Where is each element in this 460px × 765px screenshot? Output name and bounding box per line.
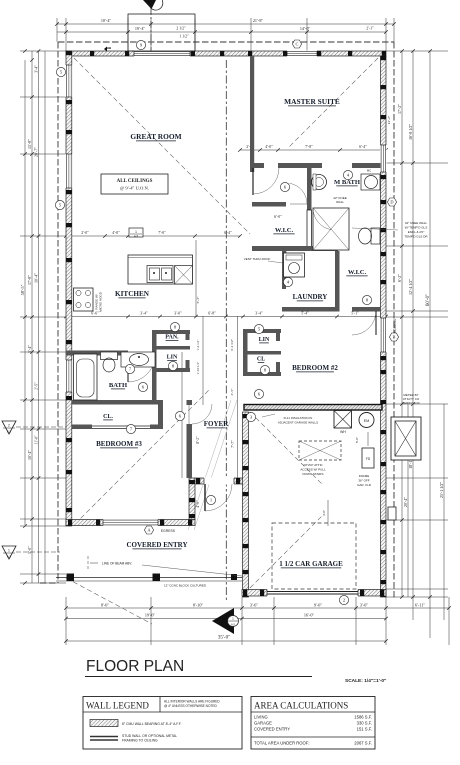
EM circle xyxy=(359,413,374,428)
svg-text:3′-1 1/2″: 3′-1 1/2″ xyxy=(230,338,234,351)
svg-text:WALL LEGEND: WALL LEGEND xyxy=(86,701,149,711)
tag 6 foyer xyxy=(175,411,184,420)
kitchen island counter xyxy=(128,255,193,284)
bed2 door swing xyxy=(352,311,376,335)
svg-text:17′-2″: 17′-2″ xyxy=(397,104,402,114)
svg-text:FOYER: FOYER xyxy=(204,420,229,428)
svg-text:6′-8″: 6′-8″ xyxy=(208,312,216,316)
exterior wall garage left xyxy=(243,412,249,597)
svg-text:3′-4″: 3′-4″ xyxy=(35,65,39,73)
svg-text:42″ KNEE WALL: 42″ KNEE WALL xyxy=(405,221,428,225)
bath toilet xyxy=(101,352,118,360)
svg-text:TOTAL AREA UNDER ROOF:: TOTAL AREA UNDER ROOF: xyxy=(254,741,310,746)
svg-text:R-11 INSULATION IN: R-11 INSULATION IN xyxy=(284,416,313,420)
interior dim col bed3 xyxy=(181,352,183,478)
tag 9 top wall xyxy=(136,40,145,49)
svg-text:ACCESS W/ PULL: ACCESS W/ PULL xyxy=(300,468,326,472)
svg-text:2067 S.F.: 2067 S.F. xyxy=(354,741,372,746)
wall pantry left xyxy=(152,330,157,372)
right extension lines xyxy=(386,50,448,52)
svg-text:VERIFY LOC: VERIFY LOC xyxy=(402,401,421,405)
svg-text:FLOOR PLAN: FLOOR PLAN xyxy=(86,658,184,675)
tag 5 left wall kitchen xyxy=(55,200,64,209)
tag 6 master door xyxy=(280,182,289,191)
svg-text:20′-7″: 20′-7″ xyxy=(34,147,39,157)
svg-text:MC: MC xyxy=(367,169,371,173)
tag hex D right xyxy=(387,198,396,206)
range xyxy=(74,288,94,311)
svg-text:4′-0″: 4′-0″ xyxy=(322,510,326,516)
svg-text:9′-0″: 9′-0″ xyxy=(314,603,322,608)
dimension row top 2 xyxy=(57,31,386,33)
svg-text:3′-5″: 3′-5″ xyxy=(230,388,234,395)
knee wall mbath xyxy=(307,210,312,250)
svg-text:1′-4 1/2″: 1′-4 1/2″ xyxy=(196,339,200,351)
svg-text:A.3: A.3 xyxy=(7,430,12,434)
svg-text:8′-0″: 8′-0″ xyxy=(101,603,109,608)
section triangle 1/A3 xyxy=(2,546,16,559)
mbath shower xyxy=(313,208,349,250)
tag hex B egress bed2 xyxy=(389,333,398,341)
laundry washer dryer xyxy=(284,253,305,277)
kitchen sink double xyxy=(147,266,173,283)
laundry door swing xyxy=(286,251,305,270)
svg-text:21′-8″: 21′-8″ xyxy=(253,18,264,23)
svg-text:5′-1″: 5′-1″ xyxy=(351,312,359,316)
svg-text:12′-2″: 12′-2″ xyxy=(387,115,391,124)
interior dim row kitchen top xyxy=(66,235,240,237)
wall bath top xyxy=(66,351,128,356)
svg-text:1 1/2 CAR GARAGE: 1 1/2 CAR GARAGE xyxy=(279,560,343,568)
ceiling note box xyxy=(101,174,168,194)
svg-text:330 S.F.: 330 S.F. xyxy=(357,721,372,726)
bath vanity xyxy=(121,352,155,367)
cl sliding doors xyxy=(92,425,150,427)
svg-text:5′-3″: 5′-3″ xyxy=(196,296,200,303)
roof valley bedroom3-foyer xyxy=(75,389,210,524)
svg-text:6′-4″: 6′-4″ xyxy=(224,231,232,235)
wall laundry bottom xyxy=(282,307,339,312)
svg-text:BEDROOM #2: BEDROOM #2 xyxy=(292,364,338,372)
wall legend header divider xyxy=(159,697,161,713)
wall cl bottom left xyxy=(72,425,92,430)
bottom dim row 2 xyxy=(66,618,386,620)
svg-text:GREAT ROOM: GREAT ROOM xyxy=(130,132,181,141)
tag 5 left wall xyxy=(56,67,65,76)
tag 4 laundry xyxy=(283,277,292,286)
title underline xyxy=(85,676,312,678)
covered entry slab xyxy=(56,577,242,579)
roof valley garage upper xyxy=(250,412,322,484)
svg-text:1586 S.F.: 1586 S.F. xyxy=(354,715,372,720)
svg-text:LIN: LIN xyxy=(167,355,178,361)
wall bed2 closet left xyxy=(243,329,248,376)
svg-text:19′-4″: 19′-4″ xyxy=(135,26,146,31)
legend swatch cmu xyxy=(90,720,118,727)
FD box xyxy=(362,448,374,468)
wall laundry right / wic2 left xyxy=(335,251,340,312)
svg-text:ENCL & 2′0″: ENCL & 2′0″ xyxy=(408,230,425,234)
garage right bump xyxy=(388,507,396,520)
svg-text:10′-4″: 10′-4″ xyxy=(101,18,112,23)
north arrow xyxy=(143,0,156,9)
entry post right xyxy=(231,574,237,580)
svg-text:20″x54″ ATTIC: 20″x54″ ATTIC xyxy=(303,463,323,467)
svg-text:5′-4″: 5′-4″ xyxy=(301,312,309,316)
svg-text:6′-2″: 6′-2″ xyxy=(397,274,402,282)
svg-text:LIN: LIN xyxy=(259,337,270,343)
left dim col line B xyxy=(31,51,33,583)
svg-text:20′-4″: 20′-4″ xyxy=(403,497,408,507)
svg-text:2′-1″: 2′-1″ xyxy=(366,27,374,31)
garage center dim xyxy=(327,500,329,526)
building centerline dash-dot xyxy=(225,60,227,600)
svg-text:12′-4 1/2″: 12′-4 1/2″ xyxy=(408,279,413,295)
svg-text:5′-4″: 5′-4″ xyxy=(28,345,32,353)
wall lin bottom xyxy=(152,368,190,372)
svg-text:6′-0″: 6′-0″ xyxy=(274,215,282,219)
wall bedroom3 right xyxy=(187,424,193,478)
svg-text:CL.: CL. xyxy=(103,414,113,420)
svg-text:10′-4″: 10′-4″ xyxy=(34,273,39,283)
wall wic1 bottom xyxy=(252,246,338,251)
svg-text:KITCHEN: KITCHEN xyxy=(115,290,150,298)
dishwasher xyxy=(175,266,193,285)
svg-text:@ 4″ UNLESS OTHERWISE NOTED: @ 4″ UNLESS OTHERWISE NOTED xyxy=(164,704,218,708)
wall wic2 bottom / bed2 top xyxy=(352,307,381,312)
tag 8 lin hall xyxy=(168,361,177,370)
interior dim row mid xyxy=(66,316,386,318)
wall master suite bottom xyxy=(250,163,264,168)
svg-text:14′-0″: 14′-0″ xyxy=(300,26,311,31)
svg-text:15′-8″: 15′-8″ xyxy=(27,139,32,149)
wall pantry mid xyxy=(152,346,190,350)
svg-text:ALL CEILINGS: ALL CEILINGS xyxy=(117,179,153,184)
wall mbath vertical xyxy=(307,168,312,210)
closet stubs bed2 xyxy=(276,333,280,341)
interior dim col foyer xyxy=(237,316,239,478)
tag 7 bath vanity xyxy=(125,364,134,373)
roof valley master suite xyxy=(288,58,378,148)
mbath sink left xyxy=(312,175,327,190)
section arrow bottom xyxy=(212,608,234,634)
svg-text:DOWN STAIRS: DOWN STAIRS xyxy=(303,472,324,476)
svg-text:A-5: A-5 xyxy=(134,234,139,238)
legend swatch stud xyxy=(90,736,118,738)
entry post mid xyxy=(153,574,161,582)
bottom dim row 3 xyxy=(66,640,386,642)
tag 1 entry xyxy=(206,495,215,504)
roof valley foyer lines xyxy=(188,400,231,530)
svg-text:FRAMING TO CEILING: FRAMING TO CEILING xyxy=(122,739,158,743)
right dim col line B xyxy=(412,51,414,620)
svg-text:12″ CONC BLOCK CULTURED: 12″ CONC BLOCK CULTURED xyxy=(164,584,207,588)
svg-text:3′-0″: 3′-0″ xyxy=(360,603,368,608)
right dim col line C xyxy=(429,51,431,638)
svg-text:A.5: A.5 xyxy=(231,623,235,627)
exterior wall entry front xyxy=(195,478,248,484)
wall cl jog xyxy=(158,400,163,429)
tag 6 bed2 xyxy=(254,389,263,398)
pantry stubs xyxy=(186,334,190,340)
svg-text:LAUNDRY: LAUNDRY xyxy=(293,293,328,301)
attic access xyxy=(299,441,341,460)
svg-text:FD: FD xyxy=(366,457,371,461)
svg-text:7′-7″: 7′-7″ xyxy=(231,440,235,448)
svg-text:7′-0″: 7′-0″ xyxy=(158,231,166,235)
svg-text:BEDROOM #3: BEDROOM #3 xyxy=(96,440,142,448)
roof valley covered entry xyxy=(66,578,152,624)
wall bed2 closet top xyxy=(243,329,281,333)
svg-text:16′-0″: 16′-0″ xyxy=(304,613,315,618)
svg-text:16′-8 1/2″: 16′-8 1/2″ xyxy=(408,124,413,140)
svg-text:W.I.C.: W.I.C. xyxy=(275,227,294,234)
svg-text:M BATH: M BATH xyxy=(334,179,361,186)
exterior wall bedroom3 front xyxy=(66,520,195,526)
svg-text:WALL: WALL xyxy=(336,200,344,204)
svg-text:7′-8″: 7′-8″ xyxy=(305,145,313,149)
exterior wall right xyxy=(381,56,387,597)
svg-text:PAN.: PAN. xyxy=(165,335,179,341)
svg-text:LIVING: LIVING xyxy=(254,715,268,720)
wall laundry left xyxy=(282,251,286,289)
wall bath right xyxy=(152,351,157,405)
garage top wall xyxy=(244,405,382,411)
svg-text:CL: CL xyxy=(257,357,265,363)
svg-text:8′-10″: 8′-10″ xyxy=(193,603,204,608)
svg-text:6′-4″: 6′-4″ xyxy=(359,145,367,149)
svg-text:2′-0″: 2′-0″ xyxy=(81,231,89,235)
bedroom3 door stub and swing xyxy=(187,400,193,405)
roof overhang dashed bottom-left xyxy=(40,582,58,584)
svg-text:3′-4″: 3′-4″ xyxy=(140,312,148,316)
centerline dashed top porch xyxy=(150,8,152,56)
svg-text:W.I.C.: W.I.C. xyxy=(348,269,367,276)
svg-text:3′-0″: 3′-0″ xyxy=(174,312,182,316)
svg-text:D: D xyxy=(390,200,393,205)
svg-text:5′-0″: 5′-0″ xyxy=(28,546,32,554)
exterior wall garage bottom xyxy=(242,590,386,597)
wall bath bottom xyxy=(72,400,163,405)
exterior wall top xyxy=(66,51,386,56)
shower door arc xyxy=(313,208,331,230)
tag hex A egress bed3 xyxy=(144,526,153,534)
tag 7 cl xyxy=(126,424,135,433)
wall great room / master suite xyxy=(250,56,254,172)
svg-text:1: 1 xyxy=(8,549,10,553)
svg-text:4′-0″: 4′-0″ xyxy=(265,145,273,149)
svg-text:MICRO HOOD: MICRO HOOD xyxy=(99,291,103,312)
roof valley great room xyxy=(74,58,250,234)
roof valley garage lower xyxy=(250,516,322,588)
tag 6 bath door xyxy=(138,382,147,391)
svg-text:17′-8″: 17′-8″ xyxy=(27,275,32,285)
bottom dim row 1 xyxy=(66,607,449,609)
tag 3 garage wall xyxy=(246,412,255,421)
left dim col line C xyxy=(38,51,40,583)
svg-text:AREA CALCULATIONS: AREA CALCULATIONS xyxy=(254,701,348,711)
entry post left xyxy=(67,574,75,582)
interior dim col hall xyxy=(195,240,197,316)
interior dim col garage right xyxy=(407,404,409,597)
svg-text:ALL INTERIOR WALLS ARE FIGURED: ALL INTERIOR WALLS ARE FIGURED xyxy=(164,700,220,704)
svg-text:8′-2″: 8′-2″ xyxy=(196,436,200,444)
svg-text:GAR. FLR: GAR. FLR xyxy=(357,483,372,487)
bottom extension lines xyxy=(65,597,67,645)
svg-text:A.3: A.3 xyxy=(7,555,12,559)
tag 8 bed2 closet xyxy=(260,365,269,374)
exterior wall left xyxy=(66,51,72,526)
svg-text:W/ TEMP’D GLS: W/ TEMP’D GLS xyxy=(405,226,427,230)
svg-text:COVERED ENTRY: COVERED ENTRY xyxy=(126,541,187,549)
section triangle 2/A3 xyxy=(2,421,16,434)
svg-text:STUD WALL OR OPTIONAL METAL: STUD WALL OR OPTIONAL METAL xyxy=(122,734,177,738)
svg-text:SCALE: 1/4″=1′-0″: SCALE: 1/4″=1′-0″ xyxy=(345,678,387,684)
svg-text:25′-1 1/2″: 25′-1 1/2″ xyxy=(439,482,444,498)
svg-text:LINE OF BEAM ABV.: LINE OF BEAM ABV. xyxy=(102,562,132,566)
mbath toilet xyxy=(371,228,380,244)
svg-text:B: B xyxy=(393,335,396,340)
wall legend table frame xyxy=(83,697,242,750)
svg-text:2 1/2″: 2 1/2″ xyxy=(176,27,186,31)
dimension row top 1 xyxy=(57,23,394,25)
svg-text:ADJACENT GARAGE WALLS: ADJACENT GARAGE WALLS xyxy=(278,421,318,425)
svg-text:36″ OFF: 36″ OFF xyxy=(358,479,369,483)
interior dim row master bottom xyxy=(240,149,386,151)
wall wic1 top xyxy=(252,202,286,207)
tag 8 laundry xyxy=(362,295,371,304)
left extension lines xyxy=(20,50,66,52)
svg-text:35′-0″: 35′-0″ xyxy=(218,636,230,641)
svg-text:1 1/2″: 1 1/2″ xyxy=(179,35,189,39)
electrical panel meter xyxy=(391,417,421,460)
tag 4 mbath xyxy=(343,170,352,179)
svg-text:COVERED ENTRY: COVERED ENTRY xyxy=(254,727,290,732)
roof overhang dashed top xyxy=(58,41,394,43)
svg-text:2′-5″: 2′-5″ xyxy=(35,382,39,390)
svg-text:151 S.F.: 151 S.F. xyxy=(357,727,372,732)
wall cl bottom right xyxy=(150,425,163,430)
svg-text:5′-0″: 5′-0″ xyxy=(355,437,359,443)
svg-text:TEMP’D GLS DR: TEMP’D GLS DR xyxy=(404,235,428,239)
tag hex C master window xyxy=(292,40,301,48)
wall bed2 closet mid xyxy=(247,351,281,355)
svg-text:8″ CMU WALL BEARING AT 8′-4″ A: 8″ CMU WALL BEARING AT 8′-4″ A.F.F. xyxy=(122,722,182,726)
bath tub xyxy=(74,354,98,400)
top extension lines xyxy=(56,18,58,42)
dimension ticks xyxy=(23,22,451,643)
right dim col line A xyxy=(401,51,403,597)
entry door leaf and swing xyxy=(204,484,206,511)
master door swing xyxy=(252,168,254,195)
right dim col line D xyxy=(443,404,445,620)
svg-text:2: 2 xyxy=(8,424,10,428)
tag 2 garage door xyxy=(339,595,348,604)
svg-text:3′-6″: 3′-6″ xyxy=(250,603,258,608)
left dim col line A xyxy=(24,60,26,525)
tag 5 bed2 closet xyxy=(254,324,263,333)
svg-text:11′-0″: 11′-0″ xyxy=(35,435,39,445)
svg-text:10′-4″: 10′-4″ xyxy=(27,450,32,460)
wall legend header line xyxy=(83,711,242,713)
garage door lines xyxy=(267,591,358,593)
svg-text:GARAGE: GARAGE xyxy=(254,721,272,726)
porch outline box top xyxy=(128,14,195,51)
svg-text:BATH: BATH xyxy=(109,382,128,389)
svg-text:19′-0″: 19′-0″ xyxy=(145,613,156,618)
svg-text:WH: WH xyxy=(340,430,346,434)
svg-text:4′-0″: 4′-0″ xyxy=(112,231,120,235)
svg-text:1′-10 1/2″: 1′-10 1/2″ xyxy=(196,361,200,374)
svg-text:6′-11″: 6′-11″ xyxy=(415,603,425,608)
mbath sink right xyxy=(361,174,380,190)
svg-text:FRAME: FRAME xyxy=(359,474,370,478)
water heater xyxy=(334,411,352,429)
svg-text:@ 9′-4″ U.O.N.: @ 9′-4″ U.O.N. xyxy=(120,186,149,191)
knee wall leader xyxy=(352,228,398,230)
wall pantry top xyxy=(152,330,190,334)
svg-text:3′-4″: 3′-4″ xyxy=(255,312,263,316)
roof overhang dashed left xyxy=(57,42,59,583)
svg-text:VENT THRU ROOF: VENT THRU ROOF xyxy=(244,257,271,261)
area calc header line xyxy=(251,711,375,713)
A-5 section tag xyxy=(129,228,143,237)
area calc table frame xyxy=(251,697,375,750)
exterior wall entry jog xyxy=(189,478,195,520)
svg-text:EM: EM xyxy=(364,419,369,423)
bath door swing xyxy=(127,355,129,382)
svg-text:60′-0″: 60′-0″ xyxy=(426,294,431,306)
car dashed box xyxy=(272,523,356,589)
svg-text:58′-5″: 58′-5″ xyxy=(20,284,25,295)
svg-text:EGRESS: EGRESS xyxy=(393,318,397,333)
wic1 door swing xyxy=(290,203,311,205)
svg-text:C: C xyxy=(296,42,299,47)
left dim col line D xyxy=(44,51,46,583)
area total divider xyxy=(251,736,375,738)
roof overhang dashed right xyxy=(393,42,395,600)
svg-text:MASTER SUITE: MASTER SUITE xyxy=(284,97,340,106)
svg-text:EGRESS: EGRESS xyxy=(161,529,176,533)
wall bed2 closet bottom xyxy=(243,372,281,376)
tag 8 pan xyxy=(170,322,179,331)
